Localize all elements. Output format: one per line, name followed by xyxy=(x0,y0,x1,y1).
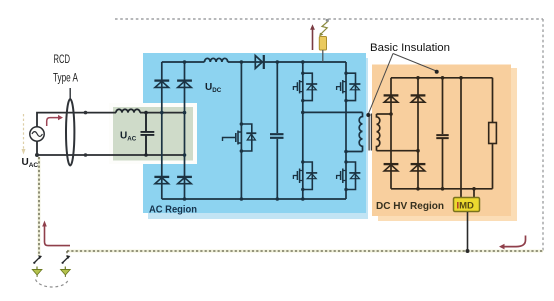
junction dot Q4 source xyxy=(344,188,347,191)
diode D4 xyxy=(177,177,192,184)
bridge leg A xyxy=(302,62,304,199)
diode D8 xyxy=(384,164,399,171)
junction dot phase to leg2 xyxy=(183,111,187,115)
junction dot HV cap top xyxy=(441,76,445,80)
RCD toroid xyxy=(66,99,74,165)
fuse lead xyxy=(322,50,324,62)
svg-text:IMD: IMD xyxy=(457,201,475,212)
bus top rail AC xyxy=(162,61,346,63)
junction dot leg4 bottom xyxy=(416,187,420,191)
diode D3 xyxy=(154,177,169,184)
junction dot DC link cap bottom xyxy=(276,197,280,201)
junction dot Q2 source xyxy=(344,99,347,102)
AC source sine xyxy=(32,132,42,137)
bridge MOSFET Q1 xyxy=(293,73,317,100)
AC region background xyxy=(143,53,366,213)
pointer dot 2 xyxy=(435,70,439,74)
boundary dot xyxy=(326,19,329,22)
IMD sense line 1 xyxy=(460,78,462,197)
AC source V1 xyxy=(30,127,44,141)
left PE dashed line xyxy=(38,157,41,256)
DC HV region shadow xyxy=(378,68,517,221)
diode D6 xyxy=(384,95,399,102)
bus bottom rail AC xyxy=(162,198,346,200)
HV cap plates xyxy=(436,135,448,138)
secondary wire top xyxy=(377,113,392,115)
primary wire top xyxy=(303,111,363,113)
pointer line 2 xyxy=(393,54,436,72)
rectifier leg 3 xyxy=(390,78,392,189)
AC region shadow xyxy=(148,58,368,219)
boost diode D5 xyxy=(255,56,262,69)
junction dot leg2 bottom xyxy=(183,197,187,201)
DC HV region background xyxy=(372,65,511,217)
junction dot bridge leg A bottom xyxy=(301,197,305,201)
junction dot leg2 top xyxy=(183,60,187,64)
RCD toroid stub xyxy=(69,88,71,100)
junction dot HV cap bottom xyxy=(441,187,445,191)
PE switch 1 xyxy=(34,258,40,264)
junction dot bridge mid B xyxy=(344,150,348,154)
EMI filter box white border xyxy=(109,103,197,164)
diode D1 xyxy=(154,81,169,88)
junction dot Q1 source xyxy=(301,99,304,102)
junction dot DC link cap top xyxy=(276,60,280,64)
PE return red arrow xyxy=(45,225,71,246)
EMI inductor xyxy=(116,109,140,112)
junction dot boost node top xyxy=(240,60,244,64)
right boundary dashed line xyxy=(542,19,544,251)
bridge MOSFET Q3 xyxy=(293,162,317,190)
leakage red arrow xyxy=(47,118,58,126)
EMI filter box xyxy=(113,107,193,161)
junction dot secondary to leg3 xyxy=(389,112,393,116)
bottom PE dashed line xyxy=(67,250,543,253)
wire top into bridge xyxy=(140,112,185,114)
junction dot leg4 top xyxy=(416,76,420,80)
diode D9 xyxy=(411,164,426,171)
IMD box xyxy=(454,198,480,212)
node dot neutral after toroid xyxy=(84,153,88,157)
load resistor body xyxy=(489,123,497,144)
junction dot IMD sense top xyxy=(459,76,463,80)
junction dot Q3 drain xyxy=(301,160,304,163)
junction dot boost node bottom xyxy=(240,197,244,201)
diode D2 xyxy=(177,81,192,88)
bridge leg B xyxy=(345,62,347,199)
boost MOSFET Q5 xyxy=(223,124,257,151)
primary wire bottom xyxy=(346,151,363,153)
junction dot Q1 drain xyxy=(301,72,304,75)
earth bond arc xyxy=(36,280,69,288)
HV cap leads xyxy=(442,78,444,189)
load resistor leads xyxy=(492,78,494,189)
junction dot bridge mid A xyxy=(301,111,305,115)
PE return arrow bottom right xyxy=(504,236,526,247)
svg-text:DC HV Region: DC HV Region xyxy=(376,201,444,212)
earth arrow 2 xyxy=(64,267,66,271)
rectifier leg 4 xyxy=(417,78,419,189)
HV bottom rail xyxy=(391,188,493,190)
node dot phase after toroid xyxy=(84,111,88,115)
DC link cap leads xyxy=(276,62,278,199)
junction dot secondary to leg4 xyxy=(416,149,420,153)
transformer primary xyxy=(359,112,362,151)
boost inductor xyxy=(205,58,228,62)
bridge MOSFET Q4 xyxy=(337,162,361,190)
node dot cap bottom xyxy=(144,153,148,157)
junction dot bridge leg A top xyxy=(301,60,305,64)
junction dot Q5 source xyxy=(240,149,244,153)
transformer core xyxy=(369,114,371,151)
DC link cap plates xyxy=(270,134,284,138)
IMD earth line xyxy=(467,212,469,251)
transformer secondary xyxy=(377,114,380,151)
svg-text:Type A: Type A xyxy=(53,73,78,85)
pointer dot 1 xyxy=(366,113,370,117)
svg-text:AC Region: AC Region xyxy=(149,204,197,216)
junction dot IMD sense bottom xyxy=(472,187,476,191)
top boundary dashed line xyxy=(115,18,543,20)
junction dot Q4 drain xyxy=(344,160,347,163)
node dot PE tap xyxy=(35,153,39,157)
IMD sense line 2 xyxy=(473,189,475,197)
earth arrow 1 xyxy=(36,267,38,271)
junction dot Q3 source xyxy=(301,188,304,191)
wire neutral bottom xyxy=(37,141,185,155)
svg-text:UAC: UAC xyxy=(22,157,39,169)
secondary wire bottom xyxy=(377,150,419,152)
junction dot neutral to leg2 xyxy=(183,153,187,157)
junction dot Q2 drain xyxy=(344,72,347,75)
HV top rail xyxy=(391,77,493,79)
PE switch 2 xyxy=(62,258,68,264)
surge red arrow xyxy=(312,29,314,50)
surge fuse xyxy=(319,37,326,51)
rectifier leg 1 xyxy=(161,62,163,199)
junction dot Q5 drain xyxy=(240,122,244,126)
junction dot phase to leg1 xyxy=(160,111,164,115)
lightning zigzag xyxy=(321,21,329,34)
boost mosfet leg xyxy=(240,62,242,199)
wire phase top xyxy=(37,113,116,127)
svg-text:Basic Insulation: Basic Insulation xyxy=(370,42,450,54)
bridge MOSFET Q2 xyxy=(337,73,361,100)
node dot cap top xyxy=(144,111,148,115)
pointer line 1 xyxy=(368,54,393,115)
U_AC faint arrow xyxy=(23,114,25,150)
PE stub to switch 2 xyxy=(66,251,68,257)
EMI cap xyxy=(141,113,155,155)
rectifier leg 2 xyxy=(184,62,186,199)
svg-text:RCD: RCD xyxy=(54,54,71,66)
diode D7 xyxy=(411,95,426,102)
